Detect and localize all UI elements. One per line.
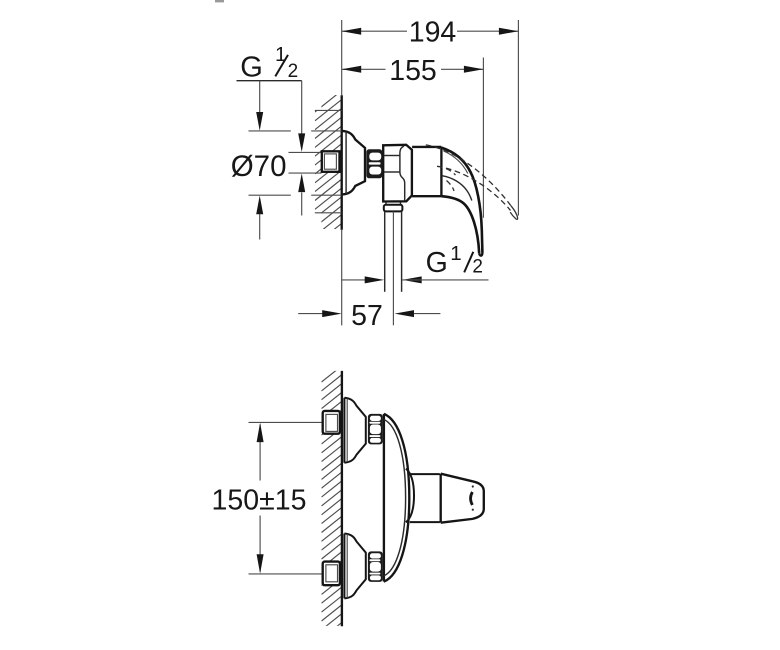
- handle neck (plan view): [410, 474, 440, 522]
- pipe centerline: [392, 212, 394, 326]
- svg-text:155: 155: [389, 55, 437, 87]
- edge smudge artifact: [215, 0, 224, 2]
- label G 1/2 (lower) with thread arrows: [342, 242, 489, 283]
- svg-text:2: 2: [288, 61, 299, 82]
- hex nut (side view): [366, 149, 382, 178]
- leader arrow to flange top: [256, 81, 263, 131]
- leader arrow to pipe (G1/2 thread): [298, 81, 305, 152]
- wall face line (plan view): [341, 371, 343, 626]
- valve body block (side view): [383, 145, 412, 202]
- svg-text:57: 57: [351, 300, 383, 332]
- svg-text:G: G: [240, 52, 263, 84]
- dimension 194: [342, 17, 519, 216]
- lower hex nut (plan view): [368, 551, 383, 582]
- svg-text:194: 194: [409, 17, 457, 49]
- upper hex nut (plan view): [368, 414, 383, 445]
- lever handle (side view, solid): [441, 148, 482, 256]
- lower escutcheon (plan view): [344, 534, 365, 599]
- cartridge dome (plan view): [406, 469, 414, 523]
- handle knob cone (plan view): [441, 474, 484, 523]
- lower union fitting (plan view): [323, 562, 340, 586]
- upper escutcheon (plan view): [344, 398, 365, 463]
- svg-text:Ø70: Ø70: [231, 150, 287, 183]
- lever handle raised position (dashed): [426, 145, 518, 220]
- label G 1/2 (top left): [237, 43, 302, 84]
- wall hatch (plan view): [322, 366, 342, 639]
- wall recess lines (top view): [315, 110, 342, 212]
- pipe thread extension lines: [289, 152, 322, 173]
- shower hose pipe: [385, 212, 402, 292]
- dimension 150+-15: [212, 422, 323, 574]
- svg-text:2: 2: [472, 256, 483, 277]
- wall hatch (top side view): [315, 91, 342, 263]
- cartridge housing cylinder (side view): [412, 147, 441, 196]
- upper union fitting (plan view): [323, 411, 340, 434]
- D70 lower arrows: [256, 173, 305, 239]
- outlet collar: [384, 202, 403, 211]
- concealed union fitting (top view): [322, 151, 340, 172]
- svg-text:G: G: [426, 247, 448, 279]
- svg-text:150±15: 150±15: [212, 484, 307, 516]
- dimension 57: [298, 300, 440, 332]
- wall face line (top view): [341, 20, 343, 325]
- mixer body (plan view): [384, 414, 409, 582]
- dimension 155: [342, 55, 484, 218]
- handle tip crescent: [471, 492, 473, 505]
- dimension D70 extension lines: [249, 131, 342, 195]
- svg-text:1: 1: [450, 242, 461, 265]
- escutcheon (side view): [342, 131, 365, 195]
